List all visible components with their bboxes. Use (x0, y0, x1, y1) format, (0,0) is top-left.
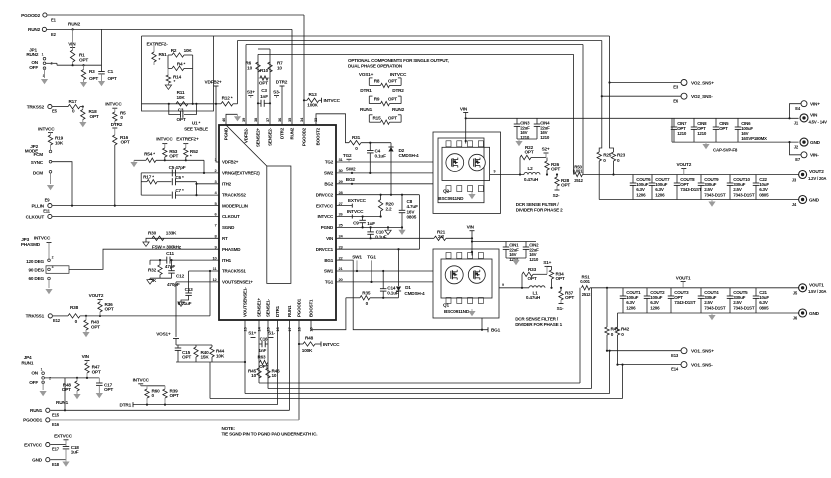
svg-text:VO1_SNS-: VO1_SNS- (691, 362, 713, 367)
svg-text:OPT: OPT (105, 307, 114, 312)
svg-text:ON: ON (31, 371, 38, 376)
svg-text:0.001: 0.001 (573, 169, 583, 174)
svg-text:INTVCC: INTVCC (347, 209, 364, 214)
svg-text:VIN+: VIN+ (810, 102, 820, 107)
svg-text:1nF: 1nF (260, 94, 268, 99)
svg-text:R8: R8 (374, 78, 380, 83)
svg-text:TG2: TG2 (343, 153, 352, 158)
svg-text:RUN1: RUN1 (30, 408, 43, 413)
svg-text:C5 47pF: C5 47pF (169, 165, 186, 170)
svg-text:VIN: VIN (326, 236, 333, 241)
svg-text:0.001: 0.001 (580, 279, 590, 284)
svg-text:PGND: PGND (224, 127, 229, 140)
svg-text:OPT: OPT (561, 183, 570, 188)
svg-text:R31: R31 (352, 135, 361, 140)
svg-text:OPT: OPT (170, 393, 179, 398)
svg-text:100K: 100K (302, 348, 313, 353)
svg-text:INTVCC: INTVCC (34, 236, 51, 241)
svg-text:S1+: S1+ (248, 330, 256, 335)
svg-text:R2: R2 (171, 48, 177, 53)
svg-text:470pF: 470pF (167, 282, 180, 287)
svg-text:VDFB2+: VDFB2+ (222, 160, 239, 165)
svg-text:CAP-SVP-F8: CAP-SVP-F8 (713, 148, 738, 153)
svg-text:7343-D1ST: 7343-D1ST (704, 305, 726, 310)
svg-text:100K: 100K (307, 102, 318, 107)
svg-text:INTVCC: INTVCC (323, 342, 340, 347)
svg-text:C3: C3 (178, 108, 184, 113)
svg-text:S1-: S1- (557, 306, 564, 311)
svg-text:SEE TABLE: SEE TABLE (184, 127, 208, 132)
svg-text:VOUT1: VOUT1 (676, 275, 691, 280)
svg-text:OFF: OFF (29, 380, 38, 385)
svg-text:C6 *: C6 * (175, 175, 184, 180)
svg-text:7343-D1ST: 7343-D1ST (674, 300, 696, 305)
svg-text:E13: E13 (671, 353, 679, 358)
svg-text:VIN: VIN (460, 106, 468, 111)
svg-text:VOUTSENSE1-: VOUTSENSE1- (243, 287, 248, 317)
svg-text:OPTIONAL COMPONENTS FOR SINGLE: OPTIONAL COMPONENTS FOR SINGLE OUTPUT, (348, 58, 449, 63)
svg-text:RUN1: RUN1 (21, 361, 34, 366)
svg-text:DTR2: DTR2 (392, 88, 404, 93)
svg-text:2.2: 2.2 (438, 234, 445, 239)
svg-text:CLKOUT: CLKOUT (26, 214, 45, 219)
svg-text:R17: R17 (69, 99, 78, 104)
svg-text:R33: R33 (528, 267, 537, 272)
svg-text:0.1uF: 0.1uF (375, 153, 387, 158)
svg-text:DTR2: DTR2 (111, 122, 123, 127)
svg-text:OPT: OPT (182, 355, 191, 360)
svg-text:R63: R63 (257, 355, 265, 360)
svg-text:DCR SENSE FILTER /: DCR SENSE FILTER / (516, 202, 560, 207)
svg-text:10: 10 (251, 373, 256, 378)
svg-text:16SVP180MX: 16SVP180MX (741, 136, 767, 141)
svg-text:SW2: SW2 (324, 171, 334, 176)
svg-text:MODE/PLLIN: MODE/PLLIN (222, 203, 248, 208)
svg-text:R54 *: R54 * (144, 152, 155, 157)
svg-text:VOS1+: VOS1+ (359, 72, 374, 77)
svg-text:S3-: S3- (273, 89, 280, 94)
svg-text:9: 9 (494, 170, 496, 174)
svg-text:DTR1: DTR1 (275, 305, 280, 317)
svg-text:SENSE2-: SENSE2- (268, 127, 273, 146)
svg-text:OPT: OPT (79, 57, 88, 62)
svg-text:0805: 0805 (407, 215, 417, 220)
svg-text:FCM: FCM (33, 152, 43, 157)
svg-text:E18: E18 (52, 462, 60, 467)
svg-text:4.5V - 14V: 4.5V - 14V (809, 119, 828, 124)
svg-text:ITH1: ITH1 (222, 258, 232, 263)
svg-text:BOOST1: BOOST1 (309, 299, 314, 317)
svg-text:90 DEG: 90 DEG (29, 267, 45, 272)
svg-text:OPT: OPT (92, 369, 101, 374)
svg-text:SYNC: SYNC (31, 160, 44, 165)
svg-text:GND: GND (809, 311, 820, 316)
svg-text:OPT: OPT (527, 276, 536, 281)
svg-text:OPT: OPT (388, 78, 397, 83)
svg-text:U1 *: U1 * (192, 121, 201, 126)
svg-text:9: 9 (502, 283, 504, 287)
svg-text:10K: 10K (216, 353, 225, 358)
svg-text:OPT: OPT (108, 76, 117, 81)
svg-text:E14: E14 (671, 367, 679, 372)
svg-text:OPT: OPT (388, 97, 397, 102)
svg-text:0805: 0805 (759, 192, 769, 197)
svg-text:R35: R35 (362, 290, 371, 295)
svg-text:INTVCC: INTVCC (133, 377, 150, 382)
svg-text:DRVCC2: DRVCC2 (316, 192, 334, 197)
svg-text:120 DEG: 120 DEG (26, 259, 44, 264)
svg-text:C11: C11 (166, 251, 174, 256)
svg-text:EXTVCC: EXTVCC (316, 203, 334, 208)
svg-text:1.5V / 20A: 1.5V / 20A (808, 289, 826, 294)
svg-text:E11: E11 (43, 209, 50, 214)
svg-text:C1: C1 (108, 69, 114, 74)
svg-text:OPT: OPT (176, 117, 185, 122)
svg-text:OFF: OFF (29, 65, 38, 70)
svg-text:C7 *: C7 * (175, 188, 184, 193)
svg-text:15K: 15K (201, 355, 210, 360)
svg-text:RUN1: RUN1 (287, 305, 292, 317)
svg-text:R3: R3 (89, 69, 95, 74)
svg-text:OPT: OPT (91, 324, 100, 329)
svg-text:VOUT2: VOUT2 (676, 162, 691, 167)
svg-text:C9: C9 (353, 221, 359, 226)
svg-text:OPT: OPT (169, 154, 178, 159)
svg-text:VO2_SNS-: VO2_SNS- (691, 94, 713, 99)
svg-text:SENSE2+: SENSE2+ (256, 127, 261, 147)
svg-text:7343-D1ST: 7343-D1ST (733, 192, 755, 197)
svg-text:OPT: OPT (524, 149, 533, 154)
svg-text:SW1: SW1 (324, 269, 334, 274)
svg-text:R13: R13 (309, 92, 318, 97)
svg-text:R30: R30 (148, 230, 157, 235)
svg-text:1210: 1210 (677, 131, 687, 136)
svg-text:SENSE1+: SENSE1+ (257, 297, 262, 317)
svg-text:7343-D1ST: 7343-D1ST (680, 187, 702, 192)
svg-text:D1: D1 (405, 285, 411, 290)
svg-text:DTR1: DTR1 (360, 88, 372, 93)
svg-text:VIN: VIN (810, 113, 818, 118)
svg-text:DIVIDER FOR PHASE 1: DIVIDER FOR PHASE 1 (515, 322, 562, 327)
svg-text:GND: GND (810, 140, 821, 145)
svg-text:CMDSH-4: CMDSH-4 (404, 291, 425, 296)
svg-text:SW2: SW2 (346, 166, 356, 171)
svg-text:0.01uF: 0.01uF (178, 301, 192, 306)
svg-text:SENSE1-: SENSE1- (266, 298, 271, 317)
svg-text:VOS1+: VOS1+ (156, 332, 171, 337)
svg-text:VIN: VIN (82, 354, 90, 359)
svg-text:JP4: JP4 (24, 355, 32, 360)
svg-text:10K: 10K (55, 140, 64, 145)
svg-text:EXTVCC: EXTVCC (54, 433, 73, 438)
svg-text:DRVCC1: DRVCC1 (316, 247, 334, 252)
svg-text:1210: 1210 (697, 131, 707, 136)
svg-text:BOOST2: BOOST2 (316, 127, 321, 145)
svg-text:E16: E16 (52, 422, 60, 427)
svg-text:1nF: 1nF (259, 348, 267, 353)
svg-text:E15: E15 (52, 412, 60, 417)
svg-text:OPT: OPT (565, 295, 574, 300)
svg-text:10K: 10K (184, 48, 193, 53)
svg-text:2512: 2512 (574, 178, 583, 183)
svg-text:INTVCC: INTVCC (317, 214, 334, 219)
svg-text:ITH2: ITH2 (222, 182, 232, 187)
svg-text:60 DEG: 60 DEG (29, 276, 45, 281)
svg-text:BG2: BG2 (346, 177, 356, 182)
svg-text:TRACK/SS1: TRACK/SS1 (222, 269, 246, 274)
svg-text:S1-: S1- (268, 330, 275, 335)
svg-text:BG1: BG1 (324, 258, 333, 263)
svg-text:R25: R25 (603, 153, 612, 158)
svg-text:INTVCC: INTVCC (324, 98, 341, 103)
svg-text:EXTVCC: EXTVCC (348, 198, 367, 203)
svg-text:RUN1: RUN1 (56, 400, 69, 405)
svg-text:BSC0911ND: BSC0911ND (438, 196, 464, 201)
svg-text:INTVCC: INTVCC (390, 72, 407, 77)
svg-text:R41: R41 (611, 327, 620, 332)
svg-text:PGOOD2: PGOOD2 (21, 13, 40, 18)
svg-text:OPT: OPT (551, 167, 560, 172)
svg-text:Q2: Q2 (443, 189, 449, 194)
svg-text:10: 10 (272, 373, 277, 378)
svg-text:VOUTSENSE1+: VOUTSENSE1+ (222, 280, 253, 285)
svg-text:10: 10 (277, 65, 282, 70)
svg-text:DCR SENSE FILTER /: DCR SENSE FILTER / (515, 316, 559, 321)
svg-text:PHASMD: PHASMD (21, 242, 41, 247)
svg-text:CMDSH-4: CMDSH-4 (399, 153, 420, 158)
svg-text:R4 *: R4 * (177, 62, 186, 67)
svg-text:7343-D1ST: 7343-D1ST (733, 305, 755, 310)
svg-text:VRNG/(EXTVREF2): VRNG/(EXTVREF2) (222, 171, 260, 176)
svg-text:SW1: SW1 (352, 255, 362, 260)
svg-text:R38: R38 (70, 305, 79, 310)
svg-text:CLKOUT: CLKOUT (222, 214, 240, 219)
svg-text:1206: 1206 (655, 192, 665, 197)
svg-text:RUN1: RUN1 (360, 107, 373, 112)
svg-text:DCM: DCM (33, 170, 43, 175)
svg-text:R15: R15 (373, 115, 382, 120)
svg-text:OPT: OPT (104, 387, 113, 392)
svg-text:GND: GND (32, 458, 43, 463)
svg-text:VIN-: VIN- (810, 153, 819, 158)
svg-text:S3+: S3+ (247, 89, 255, 94)
svg-text:R10: R10 (260, 68, 269, 73)
svg-text:OPT: OPT (89, 76, 98, 81)
svg-text:S2+: S2+ (542, 146, 550, 151)
svg-text:DTR1: DTR1 (120, 402, 132, 407)
svg-text:INTVCC: INTVCC (156, 137, 173, 142)
svg-text:INTVCC: INTVCC (38, 126, 55, 131)
svg-text:R17 *: R17 * (143, 174, 154, 179)
svg-text:Q1: Q1 (443, 302, 449, 307)
svg-text:RUN2: RUN2 (28, 27, 41, 32)
svg-text:S1+: S1+ (543, 260, 551, 265)
svg-text:TG2: TG2 (325, 160, 334, 165)
svg-text:VO2_SNS+: VO2_SNS+ (691, 80, 714, 85)
svg-text:BG2: BG2 (324, 182, 333, 187)
svg-text:2.2: 2.2 (386, 207, 393, 212)
svg-text:E17: E17 (52, 447, 60, 452)
svg-text:VO1_SNS+: VO1_SNS+ (691, 349, 714, 354)
svg-text:PGOOD2: PGOOD2 (302, 127, 307, 146)
svg-text:DTR2: DTR2 (280, 127, 285, 139)
svg-text:VIN: VIN (467, 224, 475, 229)
svg-text:EXTVCC: EXTVCC (24, 442, 43, 447)
svg-text:1.2V / 20A: 1.2V / 20A (808, 176, 826, 181)
svg-text:R23: R23 (617, 153, 626, 158)
svg-text:PGND: PGND (321, 225, 334, 230)
svg-text:OPT: OPT (388, 115, 397, 120)
svg-text:10: 10 (247, 65, 252, 70)
svg-text:PGOOD1: PGOOD1 (297, 298, 302, 317)
svg-text:INTVCC: INTVCC (105, 101, 122, 106)
svg-text:BG1: BG1 (491, 328, 501, 333)
svg-text:OPT: OPT (121, 140, 130, 145)
svg-text:1206: 1206 (650, 305, 660, 310)
svg-text:C13: C13 (185, 287, 194, 292)
svg-text:VOUT2: VOUT2 (89, 293, 104, 298)
svg-text:E12: E12 (53, 318, 61, 323)
svg-text:OPT: OPT (90, 114, 99, 119)
svg-text:RUN2: RUN2 (392, 107, 405, 112)
svg-text:TRK/SS1: TRK/SS1 (26, 314, 45, 319)
svg-text:TRACK/SS2: TRACK/SS2 (222, 192, 246, 197)
svg-text:TG1: TG1 (325, 280, 334, 285)
svg-text:OPT: OPT (556, 276, 565, 281)
svg-text:OPT: OPT (719, 126, 728, 131)
svg-text:1206: 1206 (626, 305, 636, 310)
svg-text:C3: C3 (261, 88, 267, 93)
svg-text:R48: R48 (305, 335, 314, 340)
svg-text:1206: 1206 (636, 192, 646, 197)
svg-text:L2: L2 (527, 166, 533, 171)
svg-text:DTR2: DTR2 (276, 80, 288, 85)
svg-text:OPT: OPT (62, 387, 71, 392)
svg-text:EXTREF2+: EXTREF2+ (176, 137, 199, 142)
svg-text:10K: 10K (177, 95, 186, 100)
svg-text:RUN2: RUN2 (68, 22, 81, 27)
svg-text:RUN2: RUN2 (26, 52, 39, 57)
svg-text:VOUT2: VOUT2 (809, 169, 824, 174)
svg-text:1210: 1210 (540, 135, 550, 140)
svg-text:R32: R32 (148, 268, 157, 273)
svg-text:1uF: 1uF (367, 221, 375, 226)
svg-text:VDFB2-: VDFB2- (244, 127, 249, 143)
svg-text:VOUT1: VOUT1 (809, 282, 824, 287)
svg-text:SGND: SGND (222, 225, 235, 230)
svg-text:TG1: TG1 (367, 255, 376, 260)
svg-text:BSC0911ND: BSC0911ND (444, 309, 470, 314)
svg-text:0805: 0805 (759, 305, 769, 310)
svg-text:OPT: OPT (259, 81, 268, 86)
svg-text:C16: C16 (260, 337, 268, 342)
svg-text:NOTE:: NOTE: (222, 426, 236, 431)
svg-text:EXTREF2-: EXTREF2- (147, 42, 169, 47)
svg-text:VDFB2+: VDFB2+ (205, 80, 222, 85)
svg-text:S2-: S2- (553, 193, 560, 198)
svg-text:R20: R20 (386, 201, 395, 206)
svg-text:C12: C12 (176, 274, 185, 279)
svg-text:DIVIDER FOR PHASE 2: DIVIDER FOR PHASE 2 (516, 208, 563, 213)
svg-text:RT: RT (222, 236, 228, 241)
svg-text:47pF: 47pF (165, 264, 175, 269)
svg-text:0.47uH: 0.47uH (526, 295, 541, 300)
svg-text:7343-D1ST: 7343-D1ST (704, 192, 726, 197)
svg-text:R42: R42 (621, 327, 630, 332)
svg-text:R12 *: R12 * (222, 96, 233, 101)
svg-text:GND: GND (809, 197, 820, 202)
svg-text:133K: 133K (166, 230, 177, 235)
svg-text:1uF: 1uF (71, 450, 79, 455)
svg-text:RUN2: RUN2 (290, 127, 295, 139)
svg-text:DUAL PHASE OPERATION: DUAL PHASE OPERATION (348, 64, 403, 69)
svg-text:PHASMD: PHASMD (222, 247, 241, 252)
svg-text:R9: R9 (374, 97, 380, 102)
svg-text:2512: 2512 (582, 292, 591, 297)
svg-text:0.47uH: 0.47uH (524, 177, 539, 182)
svg-text:TRKSS2: TRKSS2 (27, 104, 45, 109)
svg-text:TIE SGND PIN TO PGND PAD UNDER: TIE SGND PIN TO PGND PAD UNDERNEATH IC. (222, 432, 318, 437)
svg-text:PGOOD1: PGOOD1 (23, 418, 42, 423)
svg-text:1210: 1210 (529, 257, 539, 262)
